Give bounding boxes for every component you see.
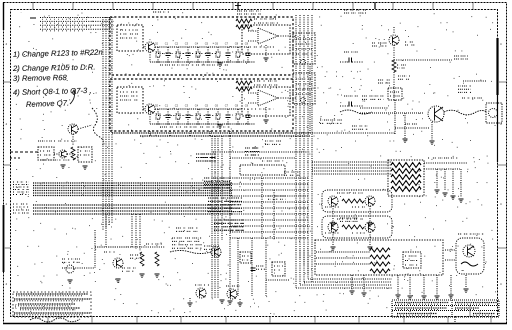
svg-text:C6: C6	[215, 42, 219, 46]
svg-text:C3: C3	[185, 104, 189, 108]
svg-text:C9: C9	[245, 42, 249, 46]
svg-text:C7: C7	[225, 42, 229, 46]
svg-text:3) Remove R68: 3) Remove R68	[13, 73, 68, 83]
svg-text:C8: C8	[235, 42, 239, 46]
svg-text:C3: C3	[185, 42, 189, 46]
svg-text:C4: C4	[195, 104, 199, 108]
svg-text:C7: C7	[225, 104, 229, 108]
svg-text:C9: C9	[245, 104, 249, 108]
svg-text:C0: C0	[155, 104, 159, 108]
svg-text:C5: C5	[205, 42, 209, 46]
svg-text:C6: C6	[215, 104, 219, 108]
svg-text:2) Change R105 to D.R.: 2) Change R105 to D.R.	[12, 63, 96, 73]
svg-text:C1: C1	[165, 42, 169, 46]
svg-text:Remove Q7.: Remove Q7.	[26, 98, 69, 109]
svg-text:C2: C2	[175, 42, 179, 46]
svg-text:C1: C1	[165, 104, 169, 108]
svg-text:C2: C2	[175, 104, 179, 108]
svg-text:C0: C0	[155, 42, 159, 46]
svg-text:C4: C4	[195, 42, 199, 46]
svg-text:...: ...	[20, 11, 22, 14]
svg-text:C5: C5	[205, 104, 209, 108]
svg-text:C8: C8	[235, 104, 239, 108]
